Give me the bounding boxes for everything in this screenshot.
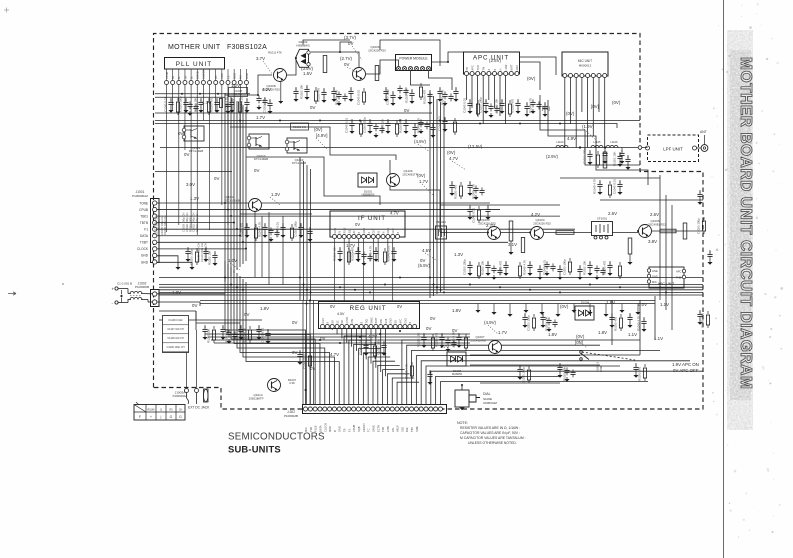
- svg-text:IN: IN: [339, 231, 342, 234]
- wire: [236, 101, 238, 270]
- wire stepped net: [246, 157, 380, 205]
- component cluster: [477, 100, 479, 103]
- connector J1002 box: [151, 290, 160, 307]
- wire: [240, 276, 330, 405]
- svg-text:TB: TB: [343, 428, 347, 432]
- component cluster: [220, 99, 223, 108]
- svg-text:TX: TX: [226, 75, 230, 79]
- svg-text:PLLB: PLLB: [314, 425, 318, 432]
- wire: [365, 329, 367, 360]
- svg-text:0V: 0V: [344, 62, 349, 67]
- diode D1002: [295, 49, 308, 67]
- component cluster: [350, 87, 352, 90]
- component cluster: [414, 123, 416, 126]
- svg-text:C1045 0.01: C1045 0.01: [438, 116, 442, 131]
- svg-text:APC: APC: [471, 65, 474, 70]
- svg-text:[4.9V]: [4.9V]: [316, 133, 327, 138]
- fuse F1: [204, 389, 209, 402]
- component cluster: [544, 102, 546, 105]
- svg-text:2SC4081 R22: 2SC4081 R22: [648, 223, 666, 227]
- svg-text:HSB88WS: HSB88WS: [362, 193, 375, 197]
- svg-text:C1023 100p: C1023 100p: [179, 96, 183, 112]
- svg-text:R1022 10K: R1022 10K: [583, 260, 587, 275]
- component cluster: [228, 329, 230, 332]
- svg-text:2SB1188TP: 2SB1188TP: [249, 397, 264, 401]
- component cluster: [365, 341, 367, 344]
- label leader line: [577, 339, 587, 348]
- svg-text:GND: GND: [338, 426, 342, 432]
- wire stepped 0V net: [230, 127, 396, 160]
- wire: [346, 329, 348, 343]
- svg-text:R1033 470: R1033 470: [638, 366, 642, 381]
- svg-text:F30BS102A: F30BS102A: [227, 44, 267, 51]
- svg-text:HELP: HELP: [396, 425, 400, 432]
- component cluster: [493, 265, 495, 268]
- wire: [351, 329, 353, 347]
- component cluster: [269, 99, 271, 102]
- component cluster: [432, 123, 434, 126]
- svg-text:SB: SB: [395, 320, 398, 324]
- component cluster: [635, 363, 637, 366]
- wire: [242, 105, 244, 264]
- component cluster: [267, 329, 269, 332]
- component cluster: [338, 91, 340, 94]
- svg-text:R1040 4.7K: R1040 4.7K: [637, 316, 641, 331]
- svg-text:R1022 10K: R1022 10K: [381, 118, 385, 133]
- svg-text:MIC: MIC: [304, 427, 308, 432]
- wire: [461, 385, 463, 390]
- power module pins: [397, 67, 401, 71]
- component cluster: [185, 98, 187, 101]
- label leader line: [316, 138, 328, 150]
- svg-text:0V: 0V: [330, 304, 335, 309]
- component cluster: [455, 87, 457, 90]
- svg-text:S1001-2: S1001-2: [596, 361, 600, 372]
- wire: [432, 52, 464, 62]
- svg-text:4.2V: 4.2V: [262, 87, 271, 92]
- svg-text:0V: 0V: [452, 328, 457, 333]
- wire: [570, 78, 572, 125]
- wire: [598, 78, 600, 113]
- svg-text:G: G: [170, 415, 173, 419]
- svg-text:1.1V: 1.1V: [660, 302, 669, 307]
- boxed label R1080: [291, 123, 309, 130]
- svg-text:POW: POW: [599, 365, 603, 372]
- component cluster: [189, 101, 191, 104]
- svg-text:4.5V: 4.5V: [337, 312, 345, 316]
- component cluster: [387, 119, 389, 122]
- svg-text:3.8V: 3.8V: [648, 239, 657, 244]
- wire: [482, 76, 484, 125]
- svg-text:APC UNIT: APC UNIT: [658, 282, 676, 286]
- jack contact 2: [195, 389, 199, 393]
- wire: [228, 264, 310, 405]
- svg-text:R1022 10K: R1022 10K: [495, 98, 499, 113]
- wire: [214, 342, 470, 344]
- wire: [366, 60, 399, 74]
- component cluster: [619, 152, 621, 155]
- label leader line: [584, 129, 596, 140]
- wire: [157, 215, 560, 217]
- component cluster: [609, 261, 611, 264]
- wire: [604, 78, 606, 148]
- component cluster: [375, 247, 377, 250]
- svg-text:LPF UNIT: LPF UNIT: [663, 147, 683, 152]
- svg-text:0V: 0V: [214, 176, 219, 181]
- svg-text:C1109 100p CH: C1109 100p CH: [167, 346, 185, 349]
- transistor Q1014: [268, 379, 281, 392]
- svg-text:R1040 4.7K: R1040 4.7K: [369, 246, 373, 261]
- svg-text:CPUB: CPUB: [165, 72, 169, 79]
- component cluster: [517, 99, 519, 102]
- svg-text:C1110 100p CH: C1110 100p CH: [200, 243, 204, 262]
- wire: [390, 160, 440, 232]
- wire: [239, 103, 241, 267]
- svg-text:(0V): (0V): [566, 111, 575, 116]
- component cluster: [478, 206, 480, 209]
- wire: [348, 239, 350, 262]
- svg-text:C1045 0.01: C1045 0.01: [463, 98, 467, 113]
- svg-text:MOTHER BOARD UNIT CIRCUIT DIAG: MOTHER BOARD UNIT CIRCUIT DIAGRAM: [737, 57, 754, 389]
- svg-text:C1045 0.01: C1045 0.01: [701, 313, 705, 328]
- wire: [233, 99, 235, 273]
- component cluster: [475, 185, 477, 188]
- svg-text:C1045 0.01: C1045 0.01: [261, 328, 265, 343]
- svg-text:SB: SB: [332, 320, 335, 324]
- svg-text:OUT: OUT: [392, 228, 395, 234]
- wire: [436, 99, 438, 294]
- wire APC to mic area: [520, 62, 541, 90]
- wire: [505, 76, 507, 125]
- svg-text:C1045 0.01: C1045 0.01: [303, 354, 307, 369]
- svg-text:P100906AZ: P100906AZ: [132, 194, 148, 198]
- svg-text:SAVE: SAVE: [370, 317, 373, 324]
- svg-text:CF1001: CF1001: [597, 217, 608, 221]
- svg-text:1.8V: 1.8V: [598, 330, 607, 335]
- wire: [299, 157, 301, 300]
- svg-text:(2.9V): (2.9V): [546, 154, 558, 159]
- resistor R1063: [683, 223, 687, 239]
- label leader line: [422, 184, 434, 196]
- svg-text:R1033 470: R1033 470: [351, 246, 355, 261]
- component cluster: [526, 102, 528, 105]
- component cluster: [208, 98, 210, 101]
- wire: [159, 319, 163, 321]
- wire top PLL to transistor: [225, 75, 273, 95]
- resistor R1005: [509, 221, 513, 241]
- wire: [159, 286, 703, 288]
- svg-text:R1080 1W: R1080 1W: [293, 125, 307, 129]
- component cluster: [360, 120, 362, 123]
- svg-text:R1022 10K: R1022 10K: [481, 260, 485, 275]
- component cluster: [569, 258, 571, 261]
- svg-text:3.7V: 3.7V: [256, 56, 265, 61]
- svg-text:C1045 0.01: C1045 0.01: [359, 340, 363, 355]
- svg-text:C1023 100p: C1023 100p: [527, 315, 531, 331]
- wire: [159, 289, 703, 291]
- component cluster: [539, 265, 541, 268]
- wire: [373, 361, 395, 404]
- resistor R1062: [603, 152, 607, 168]
- component cluster: [627, 155, 629, 158]
- svg-text:5M: 5M: [341, 320, 344, 323]
- svg-text:5C: 5C: [336, 320, 339, 323]
- wire: [349, 340, 371, 404]
- inductor L1105: [591, 146, 603, 148]
- svg-text:H: H: [499, 69, 502, 71]
- wire: [157, 228, 575, 230]
- label leader line: [452, 161, 466, 170]
- component cluster: [205, 247, 207, 250]
- component cluster: [619, 262, 621, 265]
- digital transistor Q1010: [249, 134, 269, 149]
- wire: [309, 300, 311, 405]
- wire: [243, 279, 334, 405]
- transistor Q1011: [249, 199, 262, 212]
- wire: [375, 329, 377, 368]
- component cluster: [509, 100, 511, 103]
- svg-text:1.7V: 1.7V: [346, 243, 355, 248]
- component cluster: [411, 89, 413, 92]
- component cluster: [447, 337, 449, 340]
- svg-text:5R: 5R: [183, 76, 187, 79]
- wire: [471, 76, 473, 109]
- component cluster: [579, 265, 581, 268]
- component cluster: [533, 314, 535, 317]
- connector J1002 pins: [153, 292, 157, 296]
- component cluster: [240, 325, 242, 328]
- svg-text:R1040 4.7K: R1040 4.7K: [243, 328, 247, 343]
- label leader line: [230, 263, 240, 270]
- svg-text:ATL: ATL: [391, 427, 395, 432]
- component cluster: [383, 341, 385, 344]
- svg-text:0V: 0V: [292, 320, 297, 325]
- svg-text:R1022 10K: R1022 10K: [545, 316, 549, 331]
- diode D1008: [447, 352, 466, 366]
- wire center verticals below Q1011: [254, 212, 256, 277]
- wire: [392, 378, 414, 405]
- wire: [166, 85, 168, 232]
- component cluster: [599, 180, 601, 183]
- svg-text:APC: APC: [676, 270, 681, 274]
- capacitor across input: [120, 295, 122, 297]
- svg-text:C1023 100p: C1023 100p: [522, 367, 526, 383]
- svg-text:DTC144EB: DTC144EB: [292, 161, 306, 165]
- component cluster: [246, 223, 248, 226]
- svg-text:GND: GND: [334, 228, 337, 234]
- svg-text:C1045 0.01: C1045 0.01: [387, 246, 391, 261]
- wire: [155, 124, 617, 129]
- wire: [225, 261, 306, 405]
- wire: [196, 85, 198, 235]
- svg-text:GND: GND: [516, 65, 519, 71]
- svg-text:R1033 470: R1033 470: [499, 260, 503, 275]
- svg-text:CPU5: CPU5: [346, 316, 349, 323]
- wire: [426, 366, 620, 405]
- DIAL jack S100E: [455, 390, 469, 407]
- svg-text:C1023 100p: C1023 100p: [583, 148, 587, 164]
- svg-text:(4.9V): (4.9V): [484, 320, 496, 325]
- component cluster: [222, 325, 224, 328]
- svg-text:R1040 4.7K: R1040 4.7K: [472, 184, 476, 199]
- svg-text:R1040 4.7K: R1040 4.7K: [417, 118, 421, 133]
- svg-text:1.7V: 1.7V: [498, 330, 507, 335]
- component cluster: [478, 262, 480, 265]
- wire: [440, 102, 442, 292]
- svg-text:R1033 470: R1033 470: [317, 87, 321, 102]
- wire: [211, 339, 470, 341]
- component cluster: [204, 325, 206, 328]
- label leader line: [488, 325, 498, 334]
- svg-text:3.3K: 3.3K: [289, 381, 295, 385]
- wire: [380, 329, 382, 373]
- wire: [397, 382, 419, 404]
- digital transistor Q1013: [287, 138, 307, 153]
- wire: [227, 85, 229, 225]
- component cluster: [528, 366, 530, 369]
- svg-text:0V: 0V: [310, 105, 315, 110]
- svg-text:RX: RX: [239, 75, 243, 79]
- svg-text:DTC144EB: DTC144EB: [254, 157, 268, 161]
- connector J302 box: [303, 405, 447, 414]
- svg-text:C1045 0.01: C1045 0.01: [345, 118, 349, 133]
- wire: [575, 78, 577, 148]
- svg-text:[0V]: [0V]: [591, 104, 599, 109]
- wire: [358, 239, 360, 262]
- svg-text:0V: 0V: [192, 303, 197, 308]
- wire: [611, 300, 613, 345]
- svg-text:0V: 0V: [355, 222, 360, 227]
- wire: [157, 235, 240, 237]
- svg-text:D1004: D1004: [581, 301, 590, 305]
- wire: [184, 85, 186, 150]
- component cluster: [532, 99, 534, 102]
- svg-text:SQB: SQB: [357, 426, 361, 432]
- wire: [209, 85, 211, 230]
- resistor R1051: [375, 66, 379, 81]
- svg-text:SUB-UNITS: SUB-UNITS: [228, 444, 281, 455]
- wire right verticals: [659, 175, 661, 300]
- wire: [287, 58, 296, 75]
- component cluster: [444, 117, 446, 120]
- component cluster: [542, 313, 544, 316]
- wire: [313, 300, 315, 405]
- svg-text:NOTE:: NOTE:: [457, 421, 468, 425]
- svg-text:1.7V: 1.7V: [202, 100, 211, 105]
- component cluster: [589, 261, 591, 264]
- wire: [564, 78, 566, 148]
- svg-text:2SC4081TP: 2SC4081TP: [402, 173, 417, 177]
- wire junction on border: [638, 146, 642, 150]
- component cluster: [460, 182, 462, 185]
- svg-text:GND: GND: [390, 318, 393, 324]
- wire: [412, 350, 660, 404]
- component cluster: [609, 181, 611, 184]
- svg-text:1.3V: 1.3V: [190, 196, 199, 201]
- component cluster: [429, 370, 431, 373]
- wire: [237, 273, 325, 405]
- svg-text:1.8V: 1.8V: [606, 300, 615, 305]
- component cluster: [315, 87, 317, 90]
- svg-text:C1023 100p: C1023 100p: [463, 259, 467, 275]
- svg-text:MIC: MIC: [652, 280, 657, 284]
- svg-text:0V: 0V: [404, 108, 409, 113]
- wire: [178, 85, 180, 225]
- mother unit dashed border: [154, 34, 704, 410]
- wire: [331, 329, 333, 331]
- component cluster: [348, 248, 350, 251]
- svg-text:TNE: TNE: [676, 276, 681, 280]
- component cluster: [441, 333, 443, 336]
- transistor Q1003: [488, 227, 501, 240]
- wire: [239, 85, 241, 232]
- component cluster: [309, 352, 311, 355]
- wire: [493, 76, 495, 109]
- connector J302 pins: [303, 407, 307, 411]
- wire: [157, 202, 490, 204]
- component cluster: [177, 98, 179, 101]
- component cluster: [351, 119, 353, 122]
- svg-text:0V: 0V: [178, 131, 183, 136]
- svg-text:0V: 0V: [244, 312, 249, 317]
- wire stubs with grounds under mid bundle: [477, 304, 479, 311]
- component cluster: [469, 205, 471, 208]
- wire: [302, 300, 304, 405]
- wire: [436, 376, 560, 404]
- wire: [433, 96, 435, 296]
- component cluster: [411, 362, 413, 365]
- svg-text:R1031 100K: R1031 100K: [188, 217, 192, 232]
- wire bus horizontal top 0V: [155, 112, 432, 114]
- svg-text:+: +: [150, 415, 152, 419]
- svg-text:TB01: TB01: [140, 214, 148, 218]
- component cluster: [246, 98, 248, 101]
- svg-text:CLOCK: CLOCK: [202, 70, 206, 79]
- component cluster: [258, 325, 260, 328]
- component cluster: [249, 326, 251, 329]
- microphone unit connector box J1003: [562, 52, 608, 76]
- wire: [196, 322, 240, 324]
- component cluster: [439, 87, 441, 90]
- svg-text:R1033 470: R1033 470: [435, 332, 439, 347]
- svg-text:0V: 0V: [310, 366, 315, 371]
- svg-text:R1022 10K: R1022 10K: [417, 332, 421, 347]
- svg-text:TC: TC: [367, 428, 371, 432]
- svg-text:MOD: MOD: [232, 73, 236, 79]
- wire: [581, 78, 583, 113]
- component cluster: [363, 88, 365, 91]
- svg-text:L1106: L1106: [610, 140, 618, 144]
- wire: [186, 353, 188, 389]
- wire: [196, 319, 262, 321]
- wire: [387, 374, 409, 405]
- svg-text:R1022 10K: R1022 10K: [405, 88, 409, 103]
- svg-text:AF: AF: [353, 230, 356, 234]
- component cluster: [423, 333, 425, 336]
- wire: [431, 371, 703, 404]
- svg-text:0V: 0V: [348, 41, 353, 46]
- component cluster: [363, 251, 365, 254]
- component cluster: [385, 87, 387, 90]
- component cluster: [282, 223, 284, 226]
- wire: [355, 329, 357, 352]
- svg-text:1.6V: 1.6V: [303, 71, 312, 76]
- wire: [303, 161, 305, 300]
- wire: [159, 294, 703, 296]
- component cluster: [501, 99, 503, 102]
- component cluster: [620, 314, 622, 317]
- svg-text:1.8V: 1.8V: [548, 332, 557, 337]
